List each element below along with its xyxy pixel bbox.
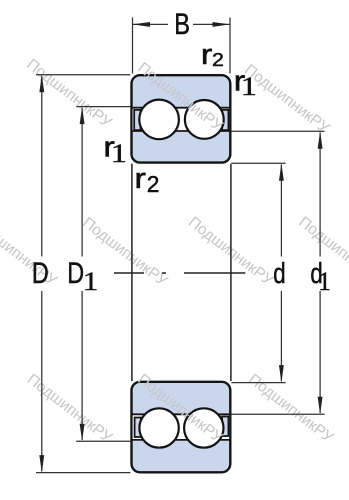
D1 arrow down — [80, 424, 85, 442]
B extension line right — [229, 18, 231, 74]
inner ring shoulder line top — [131, 130, 232, 132]
svg-text:D: D — [67, 256, 84, 289]
B extension line left — [132, 18, 134, 74]
cage right top — [222, 110, 228, 130]
outer+inner ring top block — [132, 75, 231, 162]
svg-text:d: d — [273, 258, 285, 289]
D extension line bottom — [36, 472, 130, 474]
outer ring shoulder line bottom — [131, 439, 232, 441]
D1 dimension line — [81, 108, 83, 257]
centerline axis — [114, 272, 245, 274]
inner ring shoulder line bottom — [131, 413, 232, 415]
ball bottom-right — [184, 408, 223, 447]
cage left top — [134, 110, 140, 130]
outer ring shoulder line top — [131, 107, 232, 109]
d1 arrow down — [318, 397, 323, 415]
bore silhouette line left — [131, 164, 133, 381]
d1 dimension line — [319, 133, 321, 257]
outer+inner ring bottom block — [132, 382, 231, 473]
svg-text:1: 1 — [83, 267, 99, 296]
raceway gap band bottom — [133, 413, 229, 440]
svg-text:B: B — [174, 7, 190, 40]
d dimension line — [280, 165, 282, 257]
bore silhouette line right — [230, 164, 232, 381]
D1 extension line bottom — [76, 440, 130, 442]
svg-text:1: 1 — [241, 73, 257, 101]
B arrow left — [133, 22, 151, 27]
svg-text:D: D — [32, 256, 49, 289]
d arrow up — [279, 163, 284, 181]
cage right bottom — [222, 417, 228, 437]
svg-text:1: 1 — [111, 140, 127, 168]
d arrow down — [279, 365, 284, 383]
d extension line bottom — [231, 382, 285, 384]
D arrow down — [39, 455, 44, 473]
d1 extension line bottom — [231, 413, 324, 415]
ball top-right — [185, 100, 224, 139]
D extension line top — [36, 74, 130, 76]
svg-text:r: r — [201, 38, 213, 71]
D1 arrow up — [80, 107, 85, 125]
B dimension line — [133, 23, 169, 25]
svg-text:1: 1 — [318, 267, 331, 296]
d1 arrow up — [318, 131, 323, 149]
d1 extension line top — [231, 130, 324, 132]
svg-text:r: r — [134, 162, 146, 195]
ball bottom-left — [139, 408, 178, 447]
D dimension line — [41, 76, 43, 257]
svg-text:2: 2 — [212, 50, 224, 70]
raceway gap band top — [133, 107, 229, 132]
D1 extension line top — [76, 106, 130, 108]
cage left bottom — [135, 418, 141, 438]
D arrow up — [39, 75, 44, 93]
ball top-left — [139, 100, 179, 140]
svg-text:2: 2 — [147, 171, 160, 197]
d extension line top — [231, 162, 285, 164]
B arrow right — [213, 22, 231, 27]
